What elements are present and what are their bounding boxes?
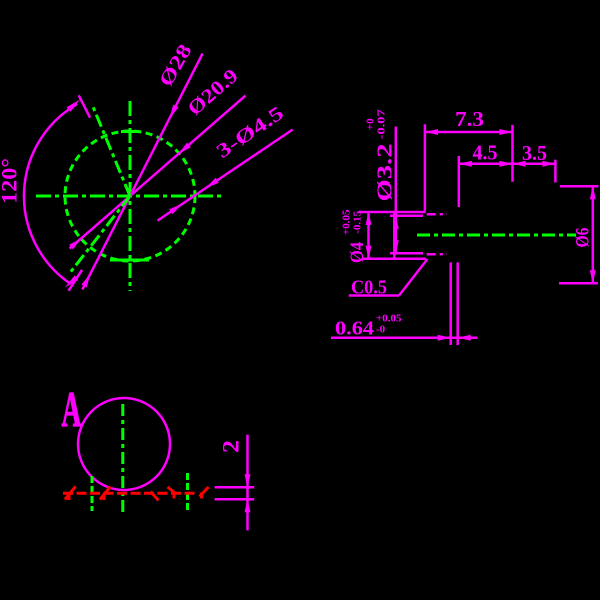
arrow 7.3 right	[500, 129, 513, 135]
svg-text:4.5: 4.5	[473, 141, 498, 165]
leader C0.5 diagonal	[399, 259, 428, 296]
center axis	[417, 234, 576, 237]
part top edge D4	[359, 211, 426, 214]
svg-text:Ø6: Ø6	[573, 228, 594, 248]
arrow 3-D4.5 upper	[206, 178, 219, 188]
extension line 7.3 right	[511, 125, 514, 182]
dim line D20.9	[70, 96, 246, 249]
part bottom edge D3.2	[390, 252, 423, 255]
tolerance D4	[341, 209, 364, 235]
extension line top	[79, 95, 90, 117]
part top edge D3.2	[390, 215, 423, 218]
svg-text:7.3: 7.3	[455, 107, 484, 131]
stake mark 4	[168, 487, 175, 499]
dim line 0.64	[331, 337, 478, 340]
bottom quadrant tick	[110, 259, 149, 262]
svg-text:3.5: 3.5	[522, 141, 547, 165]
arrow D4 top	[366, 212, 372, 225]
stake mark 3	[151, 492, 159, 501]
dim line D28	[82, 53, 202, 289]
extension line bottom	[69, 270, 83, 291]
extension line D6 top	[560, 185, 599, 188]
arrow 2 lower	[245, 499, 251, 512]
svg-text:C0.5: C0.5	[351, 277, 387, 299]
dim line D4	[367, 212, 370, 259]
angular dim arc 120deg	[24, 104, 77, 284]
extension line 4.5 left	[458, 156, 461, 207]
phantom edge top	[427, 213, 447, 216]
arrow 4.5 left	[459, 161, 472, 167]
arrow D28 bottom	[81, 274, 90, 288]
stake mark 5	[200, 487, 209, 499]
extension line 7.3 left	[424, 124, 427, 210]
arrow D6 top	[590, 186, 596, 199]
svg-text:120°: 120°	[0, 158, 22, 204]
arrow 0.64 left	[438, 335, 451, 341]
arrow 3-D4.5 lower	[169, 204, 182, 214]
dim line D3.2 leader	[395, 127, 398, 254]
arrow 4.5 right	[500, 161, 513, 167]
dim line 3-D4.5	[158, 130, 293, 221]
arc arrow top	[67, 100, 81, 112]
svg-text:-0.15: -0.15	[352, 210, 364, 233]
phantom edge bottom	[427, 253, 447, 256]
arrow 7.3 left	[425, 129, 438, 135]
tolerance D3.2	[365, 109, 388, 140]
arrow 3.5 right	[542, 161, 555, 167]
arrow D3.2 top	[393, 216, 399, 229]
part left face	[393, 212, 396, 259]
svg-text:Ø3.2: Ø3.2	[373, 144, 397, 202]
arrow D4 bottom	[366, 246, 372, 259]
dim line 2	[246, 435, 249, 531]
svg-text:2: 2	[219, 440, 244, 453]
stake mark 2	[100, 487, 111, 501]
bolt circle (green dashed, d20.9)	[65, 131, 195, 261]
dim line D6	[592, 186, 595, 283]
vertical center line	[129, 101, 132, 291]
extension line 2 top	[215, 486, 255, 489]
hole center line 112deg	[92, 104, 130, 196]
svg-text:Ø4: Ø4	[347, 242, 368, 263]
arrow 0.64 right	[458, 335, 471, 341]
arrow D28 top	[170, 105, 179, 119]
extension line 0.64 left	[449, 262, 452, 345]
staking line (red dashed)	[63, 492, 196, 495]
extension line 0.64 right	[456, 262, 459, 345]
stake center line left	[91, 476, 94, 511]
stake mark 1	[65, 487, 76, 501]
svg-text:0.64: 0.64	[335, 318, 374, 340]
hole center line 232deg	[68, 196, 130, 275]
arc arrow bottom	[65, 276, 79, 288]
arrow D3.2 bottom	[393, 240, 399, 253]
part bottom edge D4	[362, 258, 426, 261]
svg-text:-0: -0	[376, 324, 386, 336]
leader C0.5 underline	[349, 294, 399, 297]
svg-text:A: A	[62, 381, 82, 437]
arrow 3.5 left	[513, 161, 526, 167]
stake center line right	[186, 473, 189, 512]
arrow D20.9 top	[179, 143, 191, 154]
top quadrant tick	[121, 130, 139, 133]
extension line 3.5 right	[554, 160, 557, 183]
extension line D6 bottom	[559, 282, 598, 285]
center line vertical	[121, 404, 124, 516]
circle A	[78, 398, 170, 490]
dim line 4.5/3.5	[459, 163, 556, 166]
svg-text:-0.07: -0.07	[376, 109, 388, 140]
horizontal center line	[36, 195, 222, 198]
arrow 2 upper	[245, 474, 251, 487]
dim line 7.3	[425, 131, 513, 134]
arrow D6 bottom	[590, 270, 596, 283]
extension line 2 bottom	[215, 498, 255, 501]
arrow D20.9 bottom	[69, 239, 81, 250]
